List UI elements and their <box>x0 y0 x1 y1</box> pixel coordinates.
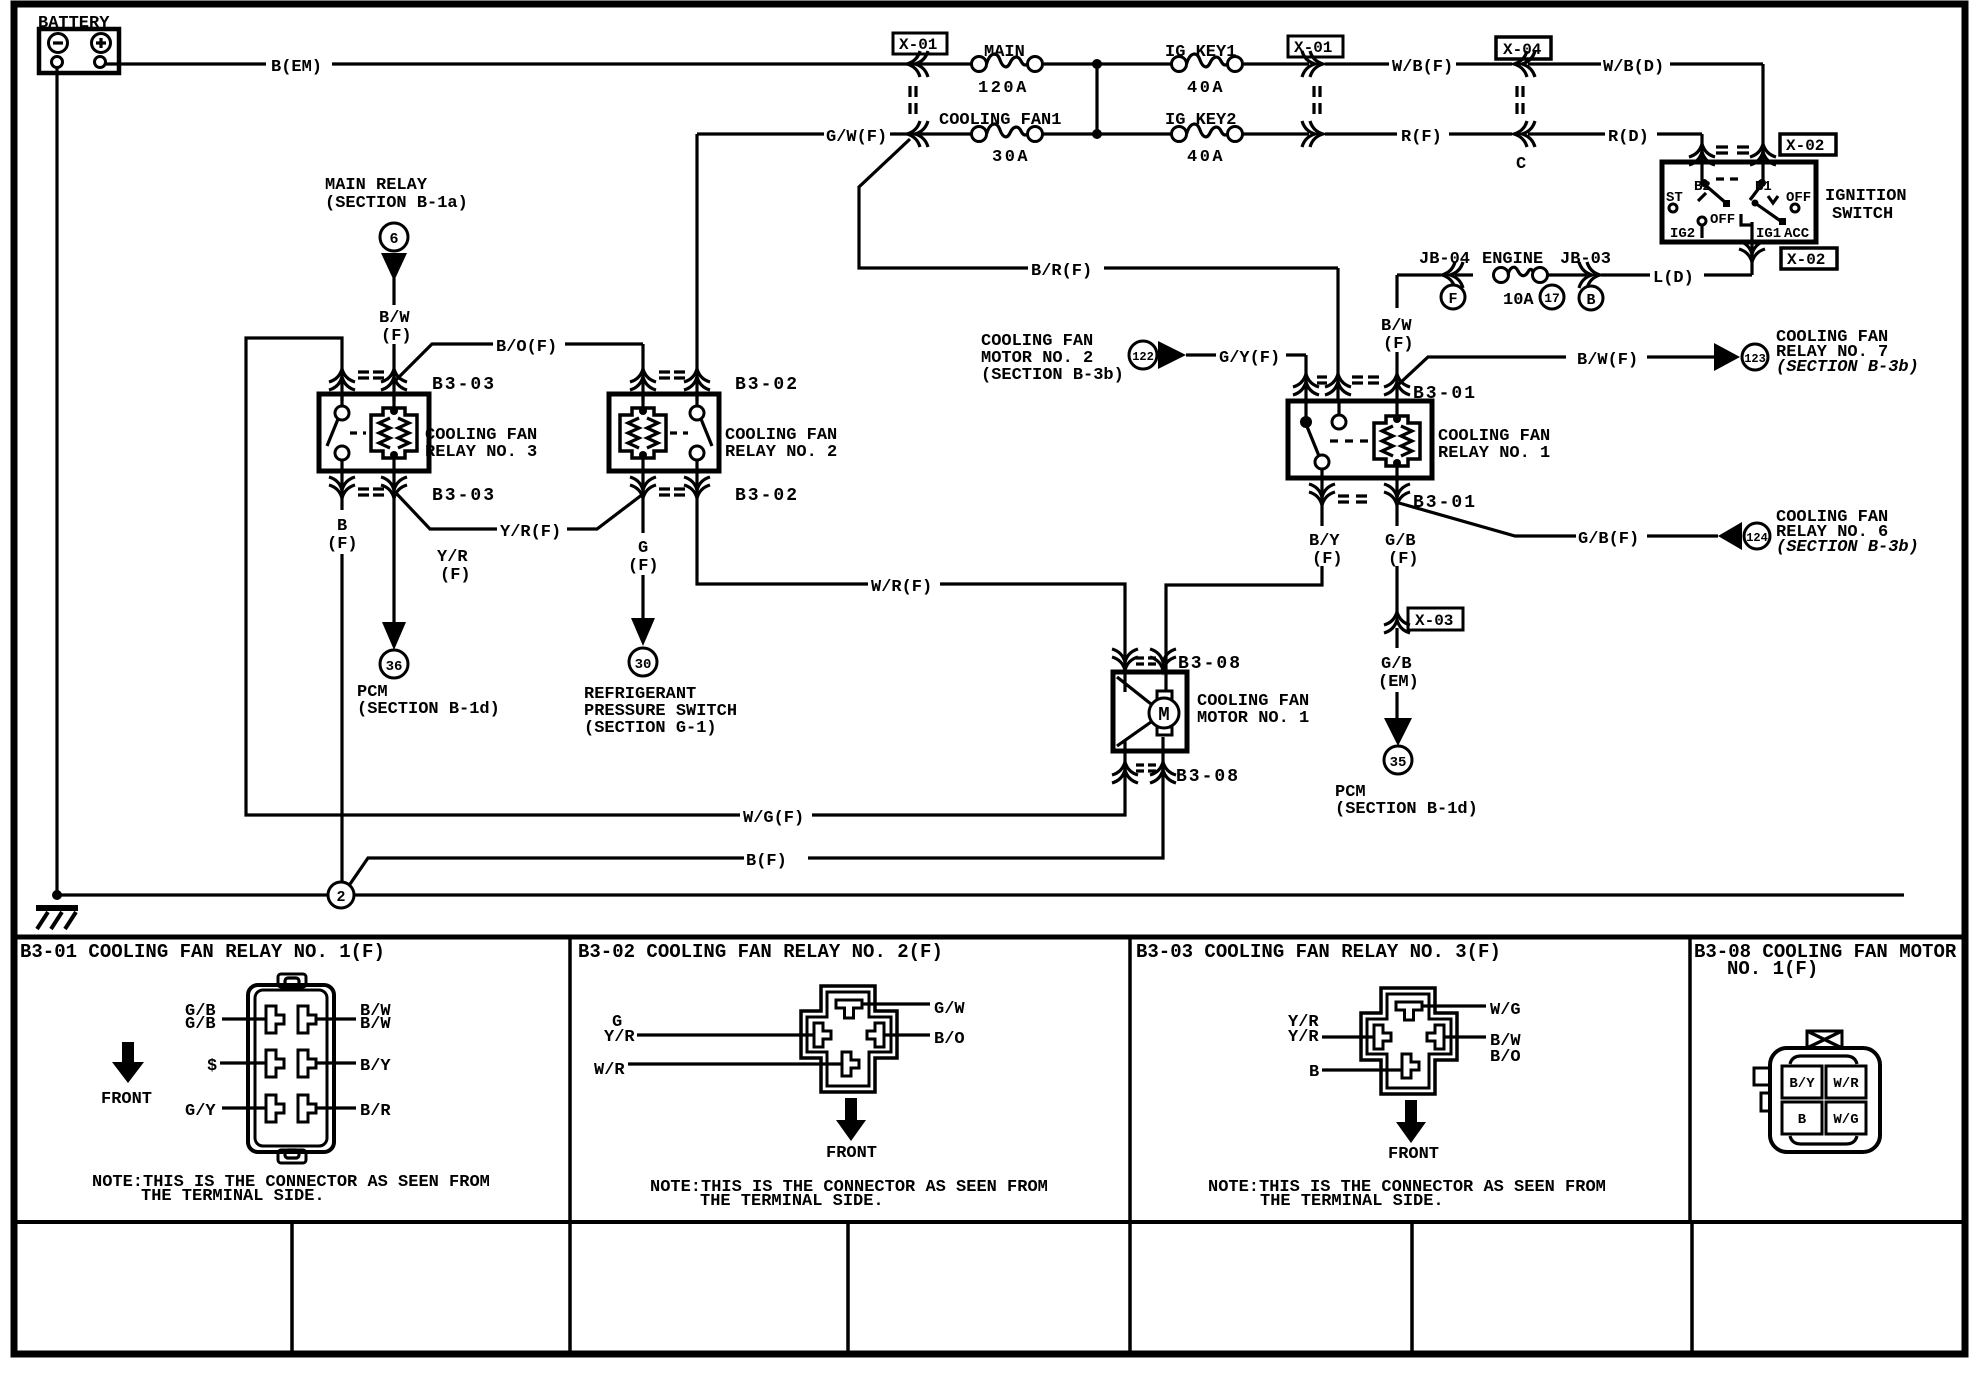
svg-text:G/B: G/B <box>1385 532 1416 551</box>
wire B (F) relay3 switch to ground node 2 <box>340 471 343 884</box>
svg-text:RELAY NO. 1: RELAY NO. 1 <box>1438 444 1550 463</box>
fuse COOLING FAN1 30A <box>972 124 1043 141</box>
svg-text:B3-03: B3-03 <box>432 486 496 506</box>
wire B/W (F) drop to relay1 coil <box>1395 275 1398 401</box>
connector B3-02 bottom <box>630 477 656 498</box>
svg-text:35: 35 <box>1390 755 1407 771</box>
svg-text:B/W: B/W <box>1381 317 1412 336</box>
svg-text:B: B <box>1798 1112 1807 1128</box>
svg-text:123: 123 <box>1744 352 1766 366</box>
connector B3-01 top <box>1293 374 1319 395</box>
svg-text:G/B(F): G/B(F) <box>1578 530 1639 549</box>
connector B3-01 drawing <box>220 974 356 1163</box>
svg-text:MOTOR NO. 1: MOTOR NO. 1 <box>1197 709 1309 728</box>
wire G/B (F) relay1 coil to PCM <box>1395 478 1398 718</box>
connector B3-03 drawing <box>1322 988 1486 1094</box>
svg-text:B(EM): B(EM) <box>271 58 322 77</box>
wire W/R(F) relay2 switch to motor <box>697 471 1125 672</box>
svg-text:B/O: B/O <box>934 1030 965 1049</box>
bottom section dividers <box>14 935 1965 940</box>
node 30 circle <box>629 648 657 676</box>
fuse ENGINE 10A <box>1494 267 1548 282</box>
svg-text:(F): (F) <box>628 557 659 576</box>
pin terminals row2 <box>266 1050 284 1077</box>
svg-text:40A: 40A <box>1187 148 1225 167</box>
svg-text:B/W: B/W <box>360 1015 391 1034</box>
ground junction node <box>52 890 62 900</box>
wire Y/R (F) relay3 coil to PCM <box>392 471 395 622</box>
svg-text:B3-02: B3-02 <box>735 486 799 506</box>
svg-text:B3-02 COOLING FAN RELAY NO. 2(: B3-02 COOLING FAN RELAY NO. 2(F) <box>578 941 943 963</box>
svg-text:SWITCH: SWITCH <box>1832 205 1893 224</box>
svg-text:C: C <box>1516 155 1526 174</box>
svg-text:(F): (F) <box>381 327 412 346</box>
svg-text:Y/R: Y/R <box>437 548 468 567</box>
svg-text:OFF: OFF <box>1710 212 1735 228</box>
svg-text:G/Y(F): G/Y(F) <box>1219 349 1280 368</box>
svg-text:B: B <box>1586 292 1595 309</box>
svg-text:G/W: G/W <box>934 1000 965 1019</box>
svg-text:B/Y: B/Y <box>1789 1076 1815 1092</box>
wire B/W(F) branch to cooling fan relay no.7 <box>1399 357 1714 384</box>
svg-text:6: 6 <box>389 231 398 248</box>
svg-text:B3-02: B3-02 <box>735 375 799 395</box>
svg-text:(SECTION B-1a): (SECTION B-1a) <box>325 194 468 213</box>
svg-text:IG KEY2: IG KEY2 <box>1165 111 1236 130</box>
svg-text:(SECTION B-3b): (SECTION B-3b) <box>1776 358 1919 377</box>
svg-text:(F): (F) <box>327 535 358 554</box>
svg-text:THE TERMINAL SIDE.: THE TERMINAL SIDE. <box>1260 1192 1444 1211</box>
svg-text:OFF: OFF <box>1786 190 1811 206</box>
relay box <box>609 394 719 471</box>
coil <box>1395 401 1398 478</box>
fuse IG KEY1 40A <box>1172 54 1243 71</box>
wire B/Y (F) relay1 switch to motor <box>1166 478 1322 672</box>
svg-text:B/R: B/R <box>360 1102 391 1121</box>
svg-text:X-02: X-02 <box>1787 251 1825 269</box>
svg-text:RELAY NO. 2: RELAY NO. 2 <box>725 443 837 462</box>
node F circle <box>1441 285 1465 309</box>
wire row 2 cooling fan feed <box>697 134 1702 401</box>
node 35 circle <box>1384 746 1412 774</box>
svg-text:M: M <box>1158 704 1169 726</box>
svg-text:IGNITION: IGNITION <box>1825 187 1907 206</box>
svg-text:NO. 1(F): NO. 1(F) <box>1727 958 1818 980</box>
motor M1 cooling fan motor no.1 <box>1112 649 1309 787</box>
svg-text:124: 124 <box>1746 531 1768 545</box>
pin terminals row3 <box>266 1095 284 1122</box>
svg-text:ENGINE: ENGINE <box>1482 250 1543 269</box>
node junction row1 <box>1092 59 1102 69</box>
svg-text:(F): (F) <box>1388 550 1419 569</box>
relay K2 cooling fan relay no.2 <box>609 369 837 506</box>
connector B3-08 drawing <box>1754 1031 1880 1152</box>
wire G (F) relay2 coil to refrigerant pressure switch <box>641 471 644 618</box>
wire B(F) motor to ground node 2 <box>348 751 1163 887</box>
svg-text:B3-08: B3-08 <box>1176 767 1240 787</box>
svg-text:(SECTION G-1): (SECTION G-1) <box>584 719 717 738</box>
svg-text:30: 30 <box>635 657 652 673</box>
wire relay3 switch top loop to W/G(F) <box>246 338 1125 815</box>
wire down to relay3 coil <box>392 344 395 401</box>
svg-text:B/R(F): B/R(F) <box>1031 262 1092 281</box>
svg-text:IG1: IG1 <box>1756 226 1781 242</box>
relay box <box>319 394 429 471</box>
battery <box>38 14 119 73</box>
svg-text:G/Y: G/Y <box>185 1102 216 1121</box>
node 2 circle on ground bus <box>328 882 354 908</box>
arrow from main relay <box>381 253 407 281</box>
svg-text:Y/R(F): Y/R(F) <box>500 523 561 542</box>
svg-text:X-01: X-01 <box>899 36 937 54</box>
svg-text:B/Y: B/Y <box>360 1057 391 1076</box>
svg-text:2: 2 <box>336 889 345 906</box>
relay K3 cooling fan relay no.3 <box>319 369 537 506</box>
front arrow <box>845 1098 857 1121</box>
motor box <box>1113 672 1187 751</box>
switch contacts <box>1306 401 1339 478</box>
svg-text:Y/R: Y/R <box>604 1028 635 1047</box>
svg-text:W/G: W/G <box>1833 1112 1858 1128</box>
switch contacts <box>340 394 343 471</box>
svg-text:W/B(D): W/B(D) <box>1603 58 1664 77</box>
svg-text:G/W(F): G/W(F) <box>826 128 887 147</box>
svg-text:IG2: IG2 <box>1670 226 1695 242</box>
wire junction link rows <box>1095 64 1098 134</box>
svg-text:W/R(F): W/R(F) <box>871 578 932 597</box>
connector X-03 <box>1384 612 1410 633</box>
svg-text:MAIN: MAIN <box>984 43 1025 62</box>
coil <box>641 394 644 471</box>
wire battery minus down to ground <box>55 68 58 895</box>
svg-text:Y/R: Y/R <box>1288 1028 1319 1047</box>
connector B3-08 top <box>1112 649 1138 670</box>
svg-text:10A: 10A <box>1503 291 1534 310</box>
svg-text:B/O(F): B/O(F) <box>496 338 557 357</box>
ground bus wire <box>57 893 1904 896</box>
svg-text:G: G <box>638 539 648 558</box>
svg-text:(F): (F) <box>440 566 471 585</box>
svg-text:COOLING FAN1: COOLING FAN1 <box>939 111 1061 130</box>
front arrow <box>1405 1100 1417 1123</box>
relay K1 cooling fan relay no.1 <box>1288 374 1550 513</box>
connector B3-03 top <box>329 369 355 390</box>
svg-text:B: B <box>1309 1063 1319 1082</box>
svg-text:B/O: B/O <box>1490 1048 1521 1067</box>
svg-text:W/R: W/R <box>594 1061 625 1080</box>
connector B3-01 bottom <box>1309 484 1335 505</box>
svg-text:FRONT: FRONT <box>1388 1145 1439 1164</box>
svg-text:JB-03: JB-03 <box>1560 250 1611 269</box>
pin terminals row1 <box>266 1006 284 1033</box>
connector B3-08 bottom <box>1112 762 1138 783</box>
svg-text:17: 17 <box>1544 291 1560 306</box>
svg-text:120A: 120A <box>978 79 1029 98</box>
svg-text:B(F): B(F) <box>746 852 787 871</box>
svg-text:B3-03: B3-03 <box>432 375 496 395</box>
svg-text:ACC: ACC <box>1784 226 1810 242</box>
connector B3-03 bottom <box>329 477 355 498</box>
svg-text:FRONT: FRONT <box>101 1090 152 1109</box>
node 6 circle <box>380 223 408 251</box>
node junction row2 <box>1092 129 1102 139</box>
node 17 circle <box>1540 285 1564 309</box>
svg-text:(SECTION B-1d): (SECTION B-1d) <box>357 700 500 719</box>
svg-text:$: $ <box>207 1057 217 1076</box>
connector X-02 bottom <box>1750 242 1753 275</box>
svg-text:W/B(F): W/B(F) <box>1392 58 1453 77</box>
svg-text:(F): (F) <box>1383 335 1414 354</box>
svg-text:X-04: X-04 <box>1503 41 1542 59</box>
svg-text:W/G: W/G <box>1490 1001 1521 1020</box>
svg-text:30A: 30A <box>992 148 1030 167</box>
svg-text:(SECTION B-3b): (SECTION B-3b) <box>981 366 1124 385</box>
svg-text:122: 122 <box>1132 350 1154 364</box>
svg-text:(SECTION B-3b): (SECTION B-3b) <box>1776 538 1919 557</box>
svg-text:G/B: G/B <box>185 1015 216 1034</box>
svg-text:R(D): R(D) <box>1608 128 1649 147</box>
pin label wires <box>220 1019 356 1108</box>
node B circle <box>1579 286 1603 310</box>
wire JB engine fuse row <box>1397 273 1587 276</box>
ground symbol <box>36 908 78 929</box>
connector X-01 right <box>1302 51 1323 77</box>
connector X-04 <box>1514 51 1535 77</box>
svg-text:W/R: W/R <box>1833 1076 1859 1092</box>
svg-text:FRONT: FRONT <box>826 1144 877 1163</box>
svg-text:X-02: X-02 <box>1786 137 1824 155</box>
svg-text:(EM): (EM) <box>1378 673 1419 692</box>
connector JB-03 <box>1579 262 1600 288</box>
svg-text:G/B: G/B <box>1381 655 1412 674</box>
node 124 circle <box>1744 523 1770 549</box>
relay box <box>1288 401 1432 478</box>
wire B/O(F) relay3 coil to relay2 coil <box>396 344 643 401</box>
svg-text:RELAY NO. 3: RELAY NO. 3 <box>425 443 537 462</box>
svg-text:F: F <box>1448 291 1457 308</box>
ignition switch feed wires already drawn; connector X-02 top <box>1689 144 1715 165</box>
svg-text:THE TERMINAL SIDE.: THE TERMINAL SIDE. <box>700 1192 884 1211</box>
svg-text:B/W: B/W <box>379 309 410 328</box>
connector JB-04 <box>1442 262 1463 288</box>
svg-text:L(D): L(D) <box>1653 269 1694 288</box>
svg-text:B3-03 COOLING FAN RELAY NO. 3(: B3-03 COOLING FAN RELAY NO. 3(F) <box>1136 941 1501 963</box>
connector B3-02 top <box>630 369 656 390</box>
svg-text:W/G(F): W/G(F) <box>743 809 804 828</box>
svg-text:MAIN RELAY: MAIN RELAY <box>325 176 428 195</box>
wire G/Y(F) to relay1 switch <box>1186 355 1306 401</box>
svg-text:B: B <box>337 517 347 536</box>
wire B/R(F) from X-01 to relay1 <box>859 139 1338 401</box>
svg-text:B/Y: B/Y <box>1309 532 1340 551</box>
svg-text:R(F): R(F) <box>1401 128 1442 147</box>
coil <box>392 394 395 471</box>
svg-text:(F): (F) <box>1312 550 1343 569</box>
connector B3-02 drawing <box>628 986 930 1092</box>
node 123 circle <box>1742 344 1768 370</box>
svg-text:B/W(F): B/W(F) <box>1577 351 1638 370</box>
svg-text:36: 36 <box>386 659 403 675</box>
fuse IG KEY2 40A <box>1172 124 1243 141</box>
ignition switch U1 <box>1662 162 1816 242</box>
connector X-01 left <box>907 51 928 77</box>
wire L(D) <box>1601 273 1752 276</box>
svg-text:(SECTION B-1d): (SECTION B-1d) <box>1335 800 1478 819</box>
wire Y/R(F) relay3 coil to relay2 <box>396 493 643 529</box>
svg-text:X-03: X-03 <box>1415 612 1453 630</box>
node 122 circle <box>1129 341 1157 369</box>
svg-text:THE TERMINAL SIDE.: THE TERMINAL SIDE. <box>141 1187 325 1206</box>
svg-text:B3-01 COOLING FAN RELAY NO. 1(: B3-01 COOLING FAN RELAY NO. 1(F) <box>20 941 385 963</box>
switch contacts <box>695 394 698 471</box>
fuse MAIN 120A <box>972 54 1043 71</box>
wire G/B(F) branch to cooling fan relay no.6 <box>1399 503 1718 536</box>
svg-text:IG KEY1: IG KEY1 <box>1165 43 1236 62</box>
svg-text:JB-04: JB-04 <box>1419 250 1470 269</box>
front arrow <box>122 1042 134 1063</box>
svg-text:40A: 40A <box>1187 79 1225 98</box>
svg-text:X-01: X-01 <box>1294 39 1332 57</box>
wire B(EM) battery bus row 1 <box>105 64 1763 181</box>
node 36 circle <box>380 650 408 678</box>
